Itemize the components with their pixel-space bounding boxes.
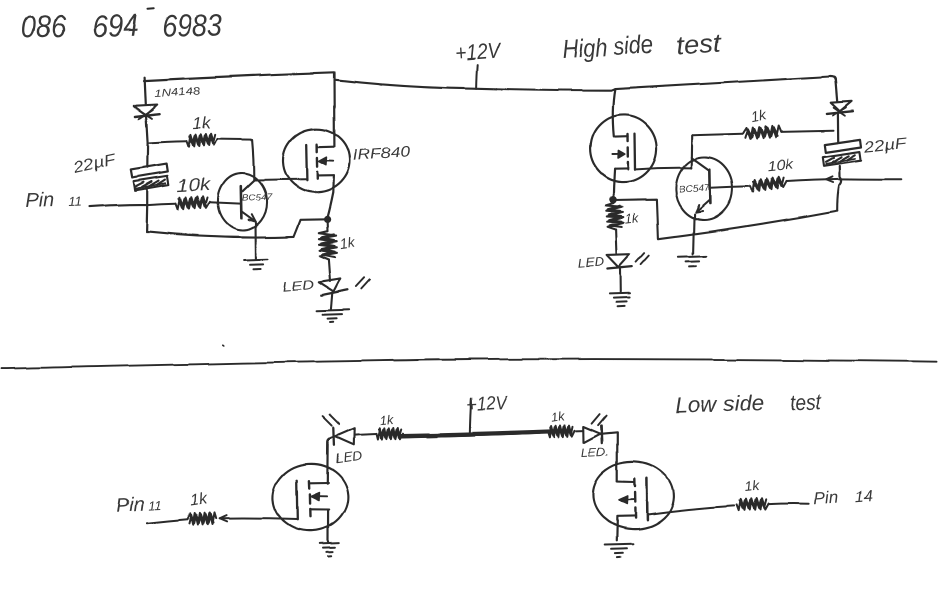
- svg-text:11: 11: [68, 194, 82, 209]
- svg-text:1N4148: 1N4148: [154, 86, 202, 100]
- svg-text:LED: LED: [281, 276, 314, 294]
- svg-text:+12V: +12V: [454, 37, 503, 65]
- svg-text:Pin: Pin: [813, 488, 839, 509]
- svg-text:086: 086: [21, 9, 66, 45]
- svg-text:High side: High side: [562, 29, 654, 64]
- svg-text:11: 11: [148, 498, 162, 514]
- svg-text:10k: 10k: [177, 174, 212, 196]
- svg-text:LED: LED: [577, 254, 605, 270]
- svg-text:BC547: BC547: [678, 182, 710, 195]
- svg-text:1k: 1k: [744, 477, 761, 495]
- svg-text:694: 694: [92, 8, 139, 45]
- svg-text:Low side: Low side: [675, 390, 765, 418]
- svg-text:6983: 6983: [162, 8, 223, 44]
- svg-text:10k: 10k: [767, 156, 795, 174]
- svg-text:Pin: Pin: [115, 494, 145, 517]
- svg-text:test: test: [675, 27, 723, 60]
- svg-text:+12V: +12V: [466, 393, 510, 416]
- svg-text:1k: 1k: [192, 114, 212, 134]
- svg-text:LED.: LED.: [581, 445, 610, 460]
- svg-text:1k: 1k: [189, 491, 209, 510]
- svg-text:Pin: Pin: [25, 190, 55, 213]
- svg-text:14: 14: [855, 488, 874, 506]
- svg-text:BC547: BC547: [242, 192, 273, 203]
- svg-text:test: test: [789, 388, 822, 415]
